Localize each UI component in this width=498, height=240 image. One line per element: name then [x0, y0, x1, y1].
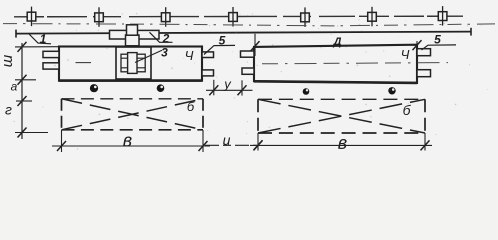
machine M1 left lug upper	[43, 51, 59, 57]
left chain line vertical	[21, 43, 23, 139]
machine M1 centre mark	[76, 62, 92, 64]
dimension i line	[205, 144, 257, 146]
dimension v1 right extension	[202, 130, 204, 152]
dimension v2 left extension	[257, 133, 259, 151]
dimension i right tick	[254, 140, 263, 150]
dimension v2 left tick	[254, 140, 263, 150]
machine M2 centre dash-dot line	[262, 63, 448, 64]
rail line	[16, 32, 471, 34]
trolley bar (component 2)	[110, 30, 160, 39]
dimension v1 line	[52, 145, 210, 147]
gearbox inner frame	[121, 54, 145, 72]
pit P1 diagonal A	[62, 99, 204, 130]
centre dash-dot line	[3, 24, 495, 26]
dimension y left tick	[209, 85, 218, 95]
dimension D right extension above	[416, 41, 418, 45]
hanger H6	[368, 7, 377, 27]
pit P2 diagonal A	[258, 99, 425, 133]
chain extension at machine top	[15, 46, 59, 48]
chain tick 4	[18, 128, 27, 138]
hanger H1	[27, 7, 36, 27]
dimension v2 right extension	[424, 133, 426, 151]
dimension v1 right tick	[199, 141, 208, 151]
chain tick 1	[18, 42, 27, 52]
machine M1 body	[59, 47, 202, 81]
svg-text:в: в	[123, 130, 132, 150]
dimension y between machines: left extension	[213, 80, 215, 96]
svg-text:в: в	[338, 133, 347, 153]
scan speckle noise	[13, 13, 487, 150]
beam line (top monorail)	[14, 15, 463, 18]
svg-text:а: а	[11, 80, 18, 94]
machine M1 right lug upper	[202, 52, 214, 58]
machine M1 right lug lower	[202, 70, 214, 76]
hanger H3	[161, 7, 170, 27]
gearbox shaft lower	[121, 67, 145, 69]
svg-text:Ч: Ч	[185, 48, 194, 63]
foundation pit P1 dashed outline	[62, 98, 204, 100]
svg-text:б: б	[403, 102, 412, 118]
svg-text:2: 2	[162, 32, 170, 46]
hanger H7	[438, 6, 447, 26]
hanger H5	[301, 7, 310, 27]
machine M2 right lug upper	[417, 49, 431, 56]
foot dot 4	[388, 87, 395, 94]
svg-text:г: г	[5, 102, 12, 118]
svg-text:1: 1	[40, 32, 47, 46]
hanger H4	[229, 7, 238, 27]
leader for label 5 left	[204, 45, 235, 54]
gearbox housing on M1	[116, 47, 151, 79]
machine M1 left lug lower	[43, 63, 59, 69]
svg-text:5: 5	[219, 33, 226, 47]
svg-text:Д: Д	[333, 36, 342, 48]
rail right end tick	[470, 28, 472, 36]
dimension y line	[206, 89, 253, 91]
machine M2 bottom edge emphasis	[254, 81, 417, 83]
gearbox shaft upper	[121, 57, 145, 59]
machine M2 left lug lower	[242, 68, 254, 74]
foot dot 3	[303, 88, 310, 95]
dimension v2 line	[250, 144, 432, 146]
hanger H2	[95, 7, 104, 27]
chain tick 3	[18, 96, 27, 106]
dimension v2 right tick	[421, 140, 430, 150]
rail left end tick	[15, 30, 17, 38]
machine M1 bottom edge emphasis	[59, 79, 202, 82]
svg-text:б: б	[187, 99, 195, 114]
machine M2 body	[254, 45, 417, 83]
dimension D left extension	[254, 34, 256, 56]
leader for label 3	[135, 50, 162, 62]
chain extension at pit top	[16, 100, 32, 102]
foundation pit P2 dashed outline	[258, 98, 425, 100]
trolley pedestal	[126, 35, 140, 46]
foot dot 1	[90, 84, 98, 92]
svg-text:и: и	[223, 132, 231, 148]
foot dot 2	[157, 84, 165, 92]
dimension y right tick	[238, 85, 247, 95]
leader for label 2	[150, 32, 173, 42]
pit P2 diagonal B	[258, 99, 425, 133]
dimension v1 left tick	[57, 141, 66, 151]
dimension v1 left extension	[61, 130, 63, 152]
chain extension at machine bottom	[15, 79, 36, 81]
dimension y right extension	[241, 80, 243, 95]
machine M2 right lug lower	[417, 70, 431, 77]
leader for label 1	[29, 34, 51, 44]
trolley top block	[127, 25, 138, 35]
chain tick 2	[18, 75, 27, 85]
leader for label 5 right	[422, 45, 457, 50]
pit P1 diagonal B	[62, 99, 204, 130]
chain extension at pit bottom	[15, 132, 48, 134]
dimension D right tick	[413, 40, 422, 50]
gearbox centre block	[128, 53, 137, 74]
dimension D left tick	[251, 41, 260, 51]
svg-text:5: 5	[434, 33, 441, 47]
svg-text:Ч: Ч	[401, 47, 410, 62]
svg-text:3: 3	[161, 46, 168, 60]
machine M2 left lug upper	[241, 51, 255, 57]
svg-text:ш: ш	[0, 54, 16, 67]
